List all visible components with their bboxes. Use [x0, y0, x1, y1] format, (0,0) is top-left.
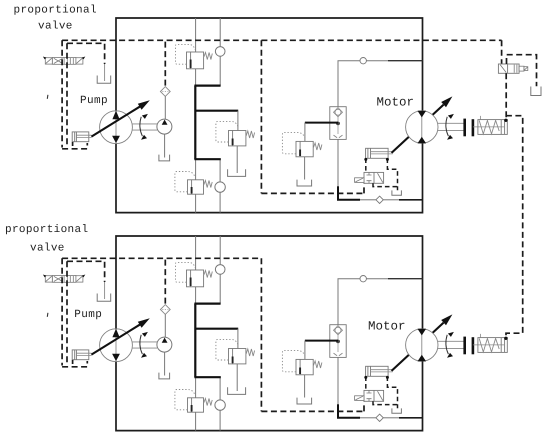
bottom circuit (duplicate, offset 218px)	[43, 236, 508, 431]
svg-text:Motor: Motor	[368, 320, 406, 334]
brake control valve BV body	[498, 64, 519, 73]
brake pilot dashed to top brake	[505, 73, 507, 119]
brake valve tank branch dashed	[507, 55, 537, 86]
tank T7	[531, 87, 541, 96]
svg-text:Pump: Pump	[74, 309, 102, 321]
svg-text:Motor: Motor	[377, 96, 415, 110]
brake pilot dashed to bottom brake	[506, 116, 523, 338]
svg-text:valve: valve	[30, 242, 65, 254]
top circuit	[43, 18, 508, 213]
svg-text:valve: valve	[38, 20, 73, 32]
top-only: pilot header extension to brake valve	[261, 40, 541, 338]
brake valve BV flow arrow	[500, 65, 506, 73]
svg-text:proportional: proportional	[5, 224, 88, 236]
svg-text:proportional: proportional	[14, 4, 97, 16]
svg-text:Pump: Pump	[80, 95, 108, 107]
brake valve BV solenoid	[519, 66, 524, 71]
